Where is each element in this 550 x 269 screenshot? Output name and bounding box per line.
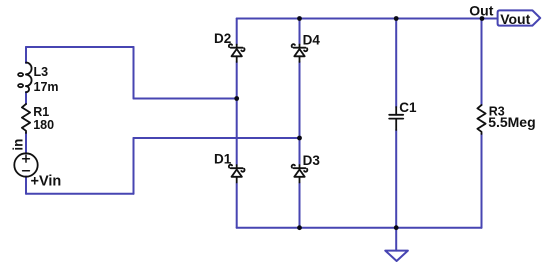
svg-text:+Vin: +Vin <box>31 173 62 189</box>
wire: C1 column <box>395 19 397 228</box>
wire: middle horizontal to bridge left node <box>134 98 237 100</box>
plus mark <box>23 155 30 162</box>
svg-text:C1: C1 <box>399 100 417 115</box>
voltage source V1 circle <box>14 153 37 176</box>
junction: bridge left node <box>234 96 239 101</box>
diode D2 <box>229 44 245 62</box>
svg-text:L3: L3 <box>34 65 49 79</box>
svg-text:D1: D1 <box>214 152 232 167</box>
svg-text:Out: Out <box>469 3 493 19</box>
wire: top rail <box>237 18 498 20</box>
wire: left column below source <box>25 177 27 194</box>
diode D3 <box>292 165 308 183</box>
wire: bridge left column <box>236 19 238 228</box>
resistor R1 <box>22 104 30 133</box>
capacitor C1 <box>389 107 403 130</box>
ground <box>385 251 408 261</box>
wire: bottom rail <box>237 227 482 229</box>
inductor L3 <box>18 63 32 93</box>
svg-text:5.5Meg: 5.5Meg <box>488 114 535 130</box>
svg-text:D4: D4 <box>303 33 321 48</box>
diode D1 <box>229 165 245 183</box>
svg-text:Vout: Vout <box>500 11 530 27</box>
svg-text:180: 180 <box>33 118 54 132</box>
svg-text:D2: D2 <box>214 31 231 46</box>
wire: left column above inductor <box>25 47 27 63</box>
junction: bottom rail D3 <box>297 225 302 230</box>
wire: middle horizontal to bridge right node <box>134 137 300 139</box>
wire: bridge right column <box>299 19 301 228</box>
minus mark <box>23 170 30 172</box>
junction: bottom rail ground <box>394 225 399 230</box>
wire: ground stub <box>395 228 397 251</box>
wire: bottom left horizontal to source <box>26 193 134 195</box>
resistor R3 <box>477 105 485 134</box>
wire: left loop lower vertical <box>133 138 135 194</box>
wire: R3 column <box>481 19 483 228</box>
wire: left loop upper-right vertical <box>133 47 135 99</box>
wire: left loop top horizontal <box>26 46 134 48</box>
svg-text:in: in <box>10 139 25 151</box>
wire: left column between R1 and source <box>25 133 27 154</box>
svg-text:17m: 17m <box>34 80 59 94</box>
junction: top rail C1 <box>394 16 399 21</box>
output flag Vout <box>498 10 541 25</box>
junction: top rail D4 <box>297 16 302 21</box>
junction: bridge right node <box>297 136 302 141</box>
wire: left column between L3 and R1 <box>25 92 27 104</box>
svg-text:D3: D3 <box>303 153 321 168</box>
diode D4 <box>292 44 308 62</box>
junction: top rail Out <box>480 16 485 21</box>
